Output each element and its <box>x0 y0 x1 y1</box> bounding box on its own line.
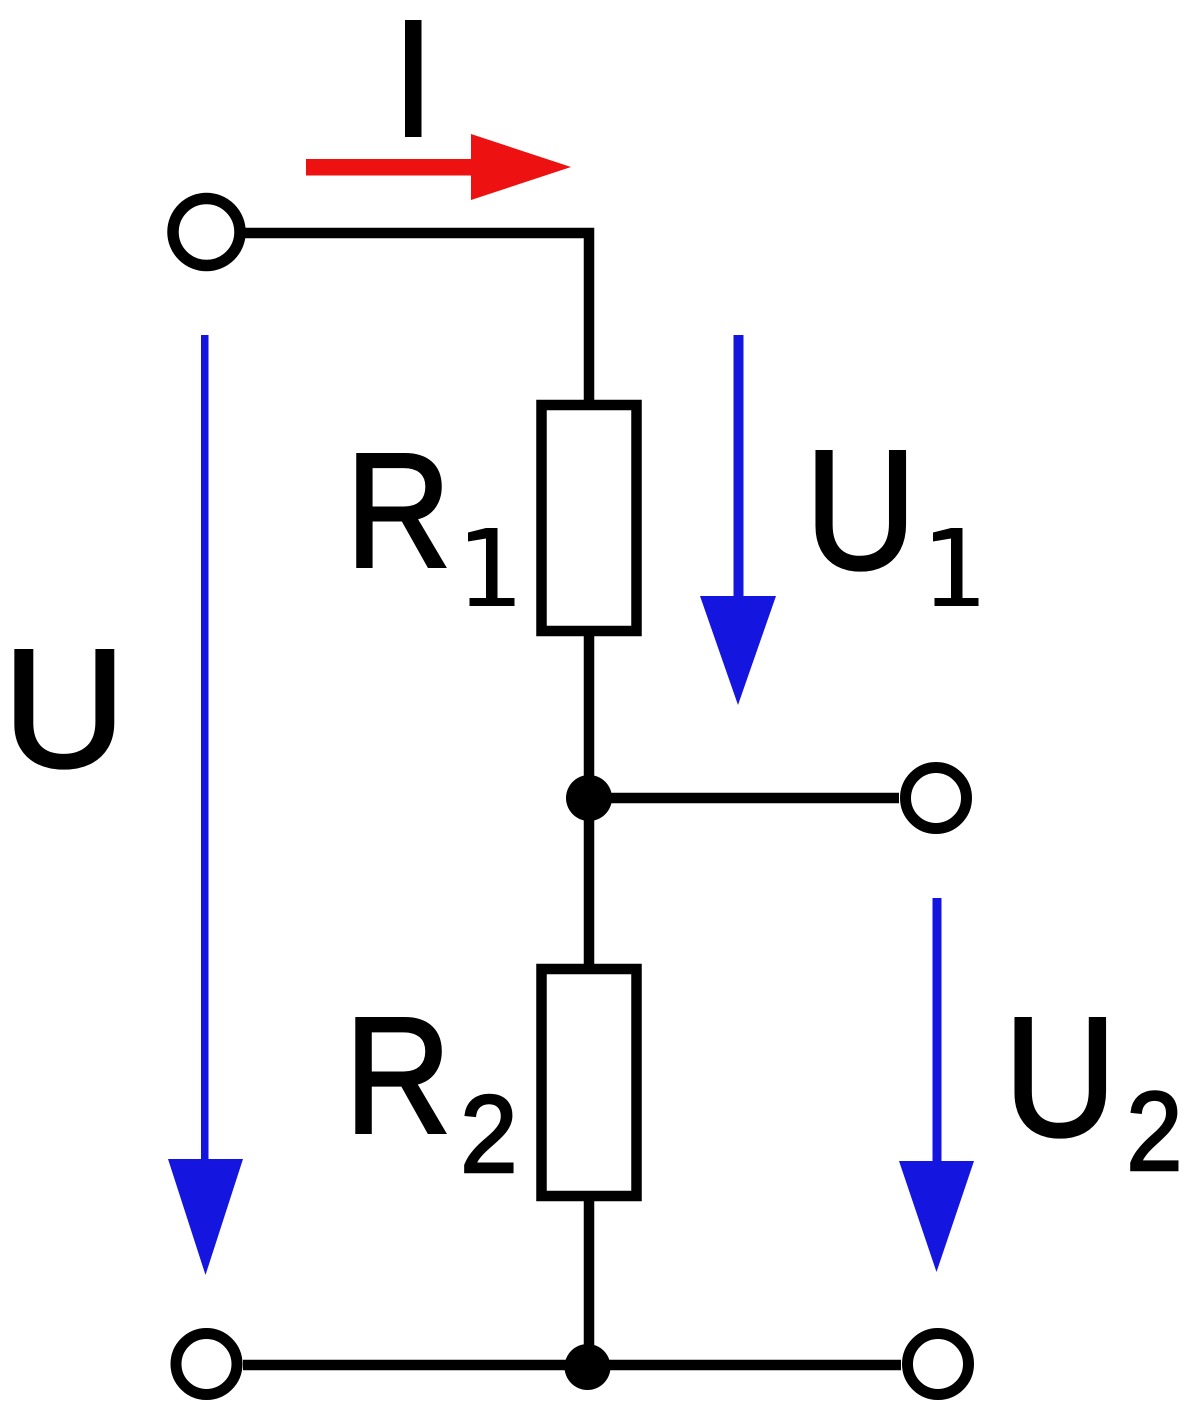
svg-text:2: 2 <box>460 1071 517 1195</box>
svg-text:U: U <box>1004 981 1117 1171</box>
svg-text:R: R <box>346 419 452 601</box>
svg-text:U: U <box>3 613 126 802</box>
svg-text:R: R <box>345 984 452 1169</box>
svg-text:U: U <box>805 416 917 605</box>
svg-text:2: 2 <box>1126 1068 1182 1194</box>
